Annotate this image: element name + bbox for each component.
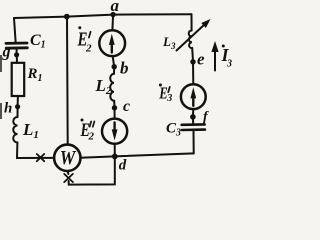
svg-text:b: b xyxy=(120,59,129,78)
wire f to C3 xyxy=(192,117,194,124)
source E3' xyxy=(181,84,206,109)
wire e to E3' xyxy=(192,62,194,85)
polarity mark x on wattmeter voltage lead xyxy=(64,174,73,182)
wire E3' to node f xyxy=(192,109,194,117)
polarity mark x on wattmeter current lead xyxy=(37,154,44,161)
wire h to L1 xyxy=(17,107,19,117)
svg-text:g: g xyxy=(2,44,11,61)
wire E2'' to node d xyxy=(114,144,116,157)
wire bottom bus node d to right corner xyxy=(115,153,194,156)
wire L1 down to bottom-left corner and right to wattmeter xyxy=(17,143,54,159)
left edge scan smudge lower xyxy=(0,103,2,119)
svg-text:W: W xyxy=(60,147,77,169)
wire g to R1 xyxy=(16,56,18,63)
svg-text:a: a xyxy=(111,0,120,15)
svg-text:3: 3 xyxy=(226,58,232,69)
node f xyxy=(190,114,196,120)
svg-text:3: 3 xyxy=(166,93,172,104)
wire L2 to node c xyxy=(113,101,115,108)
wire node a to E2' xyxy=(111,15,114,31)
node c xyxy=(112,105,117,110)
wire wattmeter voltage lead up to top bus junction xyxy=(66,17,69,145)
wire C3 down to bottom-right corner xyxy=(193,131,195,154)
wire R1 to node h xyxy=(17,96,19,107)
wire L3 to node e xyxy=(191,48,194,62)
svg-text:c: c xyxy=(123,98,130,115)
wire top bus from left corner to right corner xyxy=(14,14,192,18)
node a xyxy=(110,12,115,17)
wire wattmeter right to node d xyxy=(81,156,115,157)
svg-text:h: h xyxy=(4,101,12,117)
node h xyxy=(15,104,20,109)
wire right column top corner to L3 xyxy=(191,14,193,30)
svg-text:2: 2 xyxy=(88,131,95,143)
wire b to L2 xyxy=(113,67,115,74)
wire voltage-coil return loop to node d xyxy=(69,156,115,184)
capacitor C3 xyxy=(182,124,205,130)
svg-text:e: e xyxy=(197,50,205,69)
source E2'' xyxy=(102,119,127,144)
source E2' xyxy=(99,30,125,56)
resistor R1 xyxy=(12,63,25,96)
wire wattmeter bottom stub xyxy=(67,171,70,174)
svg-text:d: d xyxy=(119,157,127,173)
wire c to E2'' xyxy=(114,108,116,119)
inductor L2 xyxy=(110,74,114,101)
capacitor C1 xyxy=(6,43,27,48)
node b xyxy=(112,64,117,69)
inductor L1 xyxy=(13,117,17,143)
wire C1 to node g xyxy=(16,48,18,55)
node g xyxy=(14,52,19,57)
wire E2' to node b xyxy=(113,56,115,67)
node e xyxy=(190,59,195,64)
inductor L3 (variable) xyxy=(189,31,193,49)
node junction on top bus xyxy=(64,14,70,20)
wattmeter W xyxy=(54,145,80,171)
current arrow I3 xyxy=(214,51,216,71)
wire left column top corner down to C1 xyxy=(14,18,16,43)
left edge scan smudge upper xyxy=(0,55,2,72)
node d xyxy=(112,154,118,160)
svg-text:2: 2 xyxy=(85,43,92,55)
